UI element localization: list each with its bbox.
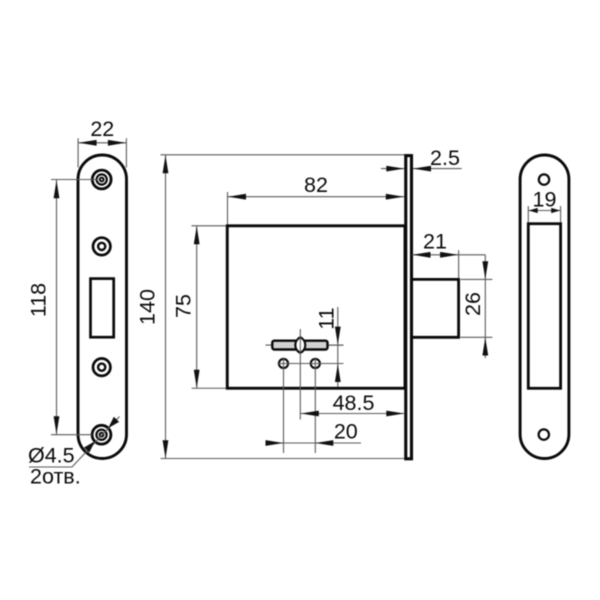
faceplate edge (thin vertical plate): [406, 156, 412, 459]
dim 82 line: [228, 196, 405, 198]
key follower bar: [272, 341, 327, 350]
dim 19 line: [528, 210, 560, 212]
lower middle hole (left view): [93, 359, 110, 376]
svg-text:140: 140: [136, 289, 160, 325]
top screw hole (left view): [92, 170, 111, 189]
svg-text:82: 82: [304, 173, 328, 197]
fixing hole right (body): [311, 359, 320, 368]
dim 2.5 lines: [381, 168, 462, 170]
bottom screw hole (left view): [92, 425, 111, 444]
dim 140 extension line bottom: [161, 458, 412, 460]
strike plate top hole: [539, 174, 549, 184]
svg-text:2отв.: 2отв.: [30, 465, 81, 489]
crosshair lines through fixing holes: [278, 358, 344, 454]
svg-text:21: 21: [423, 230, 447, 254]
key follower eye (lens): [295, 337, 305, 353]
dim 22 line: [78, 142, 126, 144]
svg-text:48.5: 48.5: [333, 391, 375, 415]
dim 19 extension lines: [528, 206, 560, 223]
dim 21 line: [412, 254, 485, 256]
dim 22 extension lines: [78, 138, 126, 167]
svg-text:26: 26: [461, 292, 485, 316]
svg-text:75: 75: [172, 294, 196, 318]
dim 11 line: [337, 307, 339, 387]
lock body rectangle: [227, 226, 405, 388]
dim 26 line: [484, 255, 486, 358]
strike plate central opening: [528, 224, 560, 389]
dia 4.5 leader line: [29, 417, 120, 468]
dim 75 extension lines: [192, 226, 227, 388]
svg-text:19: 19: [533, 188, 557, 212]
strike plate bottom hole: [539, 429, 549, 439]
fixing hole left (body): [279, 359, 288, 368]
dim 11 extension line: [329, 344, 344, 346]
dim 118 extension lines: [51, 180, 98, 435]
dim 20 line: [266, 442, 362, 444]
svg-text:22: 22: [90, 117, 114, 141]
key follower horizontal centerline: [266, 344, 344, 346]
faceplate front outline (left view): [78, 155, 127, 459]
dim 21 extension line: [458, 250, 460, 278]
dim 82 extension line: [227, 192, 229, 225]
bolt (deadbolt) protruding right: [413, 279, 459, 337]
upper middle hole (left view): [93, 238, 110, 255]
svg-text:20: 20: [334, 420, 358, 444]
svg-text:118: 118: [27, 283, 51, 317]
dim 75 line: [196, 226, 198, 388]
dim 140 extension line top: [161, 154, 405, 156]
rectangular slot (left view): [91, 279, 114, 338]
dim 140 line: [165, 155, 167, 458]
svg-text:11: 11: [314, 307, 338, 329]
key follower centerline vertical: [299, 329, 301, 420]
dim 48.5 line: [300, 413, 405, 415]
strike plate outline (right view): [520, 155, 569, 459]
dim 118 line: [56, 180, 58, 435]
dim 26 extension lines: [461, 279, 493, 337]
svg-text:2.5: 2.5: [430, 146, 460, 170]
